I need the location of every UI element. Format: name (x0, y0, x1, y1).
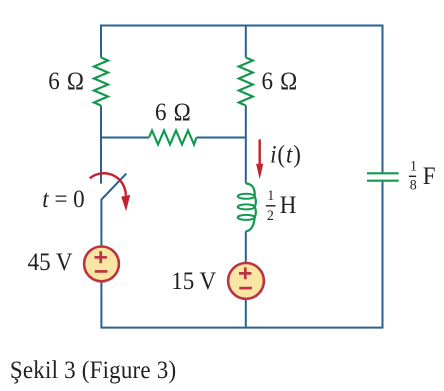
wire: middle branch bottom segment (15V source bottom to bottom wire) (245, 299, 247, 329)
wire: left branch bottom segment (45V source bottom to bottom wire) (100, 282, 102, 329)
wire: left branch middle segment (resistor bottom to switch top) (100, 106, 102, 184)
capacitor C1 bottom plate (367, 180, 399, 182)
minus sign of 45V source (95, 270, 108, 273)
resistor R2 6 ohm middle (vertical zigzag) (239, 58, 253, 106)
inductor L1 half henry coil: spine (246, 184, 256, 232)
svg-text:1: 1 (267, 188, 274, 205)
current arrow i(t) (red) (259, 139, 261, 165)
voltage source V1 45V (circle) (84, 247, 119, 282)
svg-text:1: 1 (410, 158, 417, 175)
svg-text:6 Ω: 6 Ω (155, 99, 191, 126)
wire: right branch lower (from capacitor bottom plate) (382, 181, 384, 329)
wire: horizontal wire from left branch to series resistor (101, 137, 149, 139)
resistor R3 6 ohm series (horizontal zigzag) (149, 131, 197, 145)
svg-text:Şekil 3 (Figure 3): Şekil 3 (Figure 3) (10, 357, 176, 384)
switch closing arc (red) (90, 173, 126, 196)
svg-text:H: H (280, 192, 297, 219)
plus sign of 45V source (95, 251, 107, 263)
wire: left branch lower segment (switch bottom to 45V source top) (100, 199, 102, 247)
svg-text:6 Ω: 6 Ω (48, 68, 84, 95)
plus sign of 15V source (239, 267, 251, 279)
label 1/8 F: fraction bar (409, 175, 416, 177)
wire: top horizontal (101, 25, 383, 27)
inductor ring 3 (238, 215, 255, 220)
minus sign of 15V source (239, 287, 252, 290)
label 1/2 H: fraction bar (266, 205, 276, 207)
wire: horizontal wire from series resistor to middle branch (197, 137, 246, 139)
svg-text:15 V: 15 V (171, 268, 217, 295)
svg-text:t = 0: t = 0 (42, 186, 84, 213)
resistor R1 6 ohm left (vertical zigzag) (94, 58, 108, 106)
wire: bottom horizontal (101, 327, 383, 329)
wire: right branch upper (to capacitor top plate) (382, 25, 384, 174)
switch arrowhead (red) (121, 195, 130, 211)
wire: middle branch segment (resistor bottom through junction to inductor top) (245, 106, 247, 184)
svg-text:2: 2 (267, 207, 274, 224)
wire: left branch top segment (100, 25, 102, 58)
capacitor C1 top plate (367, 172, 399, 174)
inductor ring 1 (238, 194, 255, 199)
wire: middle branch top segment (245, 25, 247, 58)
svg-text:45 V: 45 V (28, 249, 74, 276)
svg-text:8: 8 (410, 177, 417, 194)
svg-text:i(t): i(t) (270, 142, 302, 169)
wire: middle branch segment (inductor bottom to 15V source top) (245, 231, 247, 263)
svg-text:6 Ω: 6 Ω (262, 68, 298, 95)
svg-text:F: F (423, 163, 436, 190)
switch blade (102, 174, 127, 200)
voltage source V2 15V (circle) (228, 263, 264, 299)
inductor ring 2 (238, 204, 255, 209)
